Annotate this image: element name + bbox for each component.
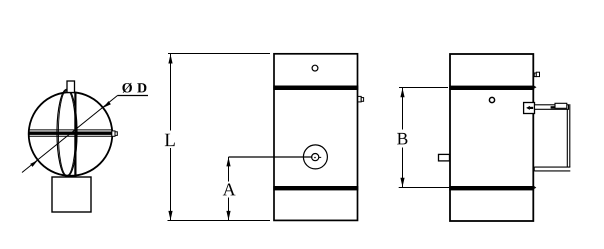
right view: actuator bottom plate top line bbox=[534, 166, 570, 168]
left view: disc ellipse outer bbox=[57, 89, 77, 176]
dimension L: top extension line bbox=[168, 53, 270, 55]
dimension A: horizontal leader to hub bbox=[229, 156, 313, 158]
right view: left side nub rectangle bbox=[439, 154, 450, 161]
right view: bottom flange band bbox=[449, 186, 534, 190]
dimension D: horizontal leader shelf bbox=[118, 95, 149, 97]
left view: horizontal shaft band bottom line bbox=[29, 135, 113, 137]
right view: actuator bottom plate left edge bbox=[533, 167, 535, 171]
middle view: right side bolt nub bbox=[358, 96, 364, 102]
dimension D: upper-right arrowhead bbox=[103, 101, 111, 108]
dimension A: bottom arrowhead bbox=[226, 211, 230, 220]
middle view: hub center dot bbox=[314, 157, 316, 159]
middle view: shaft hub outer circle bbox=[303, 145, 327, 169]
svg-text:B: B bbox=[397, 128, 409, 148]
right view: actuator right edge inner line bbox=[566, 109, 568, 167]
dimension L: top arrowhead bbox=[168, 54, 172, 63]
right view: small arrow mark inside mount box bbox=[526, 106, 530, 110]
left view: bottom base square bbox=[52, 177, 91, 212]
right view: small arrow mark tail bbox=[530, 107, 533, 109]
svg-text:A: A bbox=[223, 179, 236, 199]
dimension B: bottom arrowhead bbox=[400, 178, 404, 187]
right view: bottom flange band pointed tip bbox=[534, 186, 536, 189]
dimension L: vertical dimension line upper part bbox=[170, 54, 172, 131]
dimension L: vertical dimension line lower part bbox=[170, 148, 172, 220]
middle view: shaft hub inner circle bbox=[312, 154, 319, 161]
left view: horizontal shaft band black bar bbox=[29, 132, 113, 135]
left view: right side bolt nub bbox=[112, 131, 118, 136]
dimension B: vertical dimension line lower part bbox=[402, 148, 404, 188]
right view: body rectangle bbox=[450, 54, 533, 221]
dimension B: bottom extension line bbox=[399, 187, 449, 189]
left view: vertical shaft line bbox=[74, 92, 76, 177]
middle view: bottom flange band bbox=[273, 186, 358, 190]
middle view: top flange band bbox=[273, 86, 358, 91]
left view: horizontal shaft band top line bbox=[29, 129, 113, 131]
right view: top flange band pointed tip bbox=[534, 86, 536, 89]
dimension D: diagonal diameter line bbox=[22, 96, 118, 173]
middle view: hub right tick bbox=[319, 156, 321, 158]
right view: top flange band bbox=[449, 86, 534, 90]
left view: disc ellipse inner arc bbox=[58, 90, 75, 175]
right view: dark notch on bar bbox=[551, 106, 555, 108]
right view: actuator bottom plate bottom line bbox=[534, 170, 570, 172]
dimension A: top arrowhead bbox=[226, 157, 230, 166]
svg-text:Ø D: Ø D bbox=[122, 81, 148, 96]
left view: valve body circle bbox=[29, 92, 113, 176]
dimension L: bottom arrowhead bbox=[168, 211, 172, 220]
dimension A: vertical dimension line lower part bbox=[228, 198, 230, 221]
middle view: small top hole circle bbox=[312, 65, 318, 71]
dimension B: top extension line bbox=[399, 87, 448, 89]
right view: actuator horizontal bar bbox=[535, 105, 569, 110]
dimension L: bottom extension line bbox=[168, 220, 271, 222]
dimension B: vertical dimension line upper part bbox=[402, 88, 404, 130]
svg-text:L: L bbox=[164, 130, 176, 151]
right view: actuator right edge outer line bbox=[569, 104, 571, 167]
right view: top right small tab bbox=[534, 72, 539, 76]
dimension D: lower-left arrowhead bbox=[30, 160, 38, 167]
dimension A: vertical dimension line upper part bbox=[228, 157, 230, 182]
right view: actuator mount square box bbox=[524, 103, 535, 114]
right view: small hole circle bbox=[489, 97, 494, 102]
middle view: body rectangle bbox=[274, 54, 358, 221]
left view: top shaft rectangle bbox=[67, 81, 75, 93]
dimension B: top arrowhead bbox=[400, 88, 404, 97]
right view: raised box on bar bbox=[555, 103, 567, 108]
